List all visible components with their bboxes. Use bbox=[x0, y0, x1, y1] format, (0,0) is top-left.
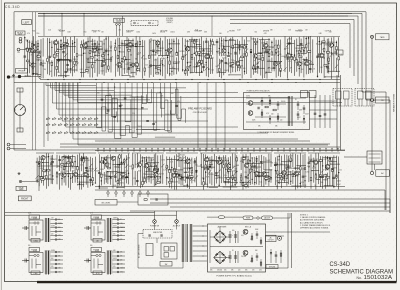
capacitor C49 bbox=[258, 107, 259, 110]
resistor R25 bbox=[98, 50, 100, 53]
wire bbox=[328, 38, 330, 73]
connector box speakers A bbox=[333, 89, 352, 107]
switch contact bbox=[64, 123, 68, 125]
wire bbox=[48, 154, 50, 187]
connector pin tick bbox=[272, 148, 273, 152]
resistor R4 bbox=[35, 47, 37, 50]
capacitor C27 bbox=[257, 67, 260, 68]
capacitor C19 bbox=[220, 61, 223, 62]
resistor R186 bbox=[282, 173, 285, 175]
resistor R195 bbox=[327, 177, 330, 179]
wire bbox=[273, 213, 291, 218]
wire bbox=[160, 83, 171, 132]
resistor R9 bbox=[47, 58, 49, 61]
wire bbox=[199, 48, 211, 50]
wire bbox=[283, 154, 285, 182]
wire vertical pair bbox=[291, 213, 293, 268]
wire bbox=[173, 39, 175, 75]
wire bbox=[80, 41, 82, 78]
wire bbox=[79, 181, 92, 183]
resistor R132 bbox=[132, 165, 134, 168]
wire bbox=[297, 44, 303, 46]
capacitor C66 bbox=[186, 177, 189, 178]
wire bbox=[142, 83, 146, 104]
switch contact bbox=[76, 117, 80, 119]
wire bbox=[227, 157, 229, 169]
resistor R199 bbox=[260, 240, 262, 243]
wire bbox=[96, 41, 98, 57]
wire bbox=[68, 69, 78, 71]
resistor R31 bbox=[101, 55, 104, 57]
wire bbox=[237, 251, 239, 263]
fuse bbox=[96, 254, 101, 256]
wire bbox=[83, 40, 85, 78]
switch contact bbox=[64, 117, 68, 119]
wire bbox=[98, 36, 100, 74]
wire bbox=[92, 158, 94, 186]
wire bbox=[328, 44, 334, 46]
transistor Q6 bbox=[102, 62, 106, 66]
wire bbox=[223, 39, 225, 56]
transistor Q10 bbox=[156, 41, 160, 45]
transistor Q5 bbox=[92, 48, 96, 52]
wire bbox=[166, 49, 170, 51]
wire bbox=[239, 41, 241, 55]
label USA bbox=[31, 239, 40, 243]
wire bbox=[193, 255, 207, 257]
wire bbox=[191, 158, 193, 184]
bus wire bbox=[170, 206, 390, 208]
wire bbox=[77, 155, 79, 184]
resistor R158 bbox=[223, 165, 225, 168]
resistor R184 bbox=[297, 171, 300, 173]
wire bbox=[207, 216, 214, 218]
node AC bbox=[257, 217, 259, 219]
resistor R197 bbox=[251, 236, 253, 239]
wire bbox=[64, 165, 78, 167]
diode D13 bbox=[195, 170, 197, 172]
wire bbox=[86, 45, 102, 47]
transistor Q7 bbox=[117, 62, 121, 66]
diode D9 bbox=[50, 163, 52, 165]
connector pin tick bbox=[146, 148, 147, 152]
resistor R110 bbox=[47, 169, 50, 171]
resistor R84 bbox=[291, 56, 293, 59]
capacitor C79 bbox=[313, 161, 316, 162]
regulator sub-board box bbox=[244, 93, 310, 130]
wire bbox=[269, 97, 271, 106]
wire bbox=[29, 255, 34, 257]
wire bbox=[251, 255, 253, 263]
connector pin tick bbox=[170, 148, 171, 152]
wire bbox=[91, 39, 93, 78]
wire bbox=[47, 83, 49, 141]
capacitor C64 bbox=[145, 164, 148, 165]
wire bbox=[50, 227, 63, 229]
bus wire right pair bbox=[340, 75, 342, 150]
wire bbox=[331, 52, 338, 54]
resistor R148 bbox=[180, 175, 182, 178]
resistor R104 bbox=[273, 109, 276, 111]
diode D17 bbox=[304, 168, 306, 170]
filter capacitor C502 bbox=[234, 231, 237, 243]
wire bbox=[236, 155, 238, 184]
connector pin bbox=[55, 223, 57, 225]
bridge rectifier bbox=[214, 231, 226, 243]
wire bbox=[281, 156, 283, 188]
wire bbox=[148, 157, 150, 183]
wire bbox=[102, 83, 116, 131]
wire bbox=[50, 271, 63, 273]
wire bbox=[176, 223, 178, 229]
resistor R85 bbox=[294, 57, 296, 60]
wire bbox=[61, 157, 63, 186]
wire bbox=[232, 37, 234, 72]
capacitor C43 bbox=[152, 124, 155, 125]
transistor Q47 bbox=[314, 160, 318, 164]
wire bbox=[10, 144, 26, 146]
wire bbox=[371, 102, 373, 172]
resistor R54 bbox=[191, 55, 193, 58]
capacitor C50 bbox=[314, 113, 317, 114]
wire bbox=[329, 157, 331, 186]
wire bbox=[221, 37, 223, 56]
wire bbox=[211, 16, 213, 36]
wire bbox=[94, 60, 106, 62]
wire bbox=[266, 48, 270, 50]
resistor R35 bbox=[124, 57, 126, 60]
wire bbox=[275, 40, 277, 78]
transistor Q8 bbox=[128, 42, 132, 46]
wire bbox=[253, 67, 265, 69]
wire bbox=[51, 83, 187, 88]
wire bbox=[150, 158, 152, 184]
wire bbox=[70, 83, 268, 134]
capacitor C11 bbox=[101, 65, 104, 66]
wire bbox=[307, 12, 366, 100]
wire bbox=[280, 250, 282, 263]
wire bbox=[330, 38, 332, 80]
wire bbox=[36, 152, 54, 154]
wire bbox=[97, 226, 99, 236]
power supply board outline bbox=[208, 224, 266, 272]
wire bbox=[308, 36, 310, 74]
wire bbox=[43, 13, 45, 36]
wire bbox=[313, 158, 315, 183]
wire bbox=[122, 16, 124, 36]
capacitor C60 bbox=[114, 176, 117, 177]
resistor R163 bbox=[236, 158, 238, 161]
wire bbox=[112, 239, 125, 241]
switch contact bbox=[46, 131, 50, 133]
resistor R185 bbox=[279, 174, 282, 176]
transistor Q35 bbox=[144, 164, 148, 168]
capacitor C88 bbox=[275, 255, 278, 256]
wire bbox=[239, 60, 244, 62]
wire bbox=[101, 41, 103, 75]
wire bbox=[267, 60, 282, 62]
resistor R170 bbox=[249, 169, 251, 172]
wire bbox=[112, 255, 125, 257]
diode D15 bbox=[270, 177, 272, 179]
resistor R100 bbox=[261, 112, 263, 115]
wire bbox=[297, 165, 307, 167]
switch contact bbox=[58, 117, 62, 119]
wire bbox=[103, 157, 105, 169]
wire bbox=[50, 263, 63, 265]
resistor R92 bbox=[319, 54, 321, 57]
capacitor C4 bbox=[48, 56, 51, 57]
wire bbox=[224, 83, 226, 151]
wire bbox=[335, 156, 337, 186]
wire bbox=[248, 162, 263, 164]
wire bbox=[229, 74, 241, 76]
wire bbox=[225, 155, 227, 186]
wire bbox=[64, 83, 132, 96]
wire bbox=[226, 236, 230, 238]
wire bbox=[87, 37, 89, 73]
wire bbox=[317, 37, 319, 78]
resistor R116 bbox=[77, 167, 79, 170]
wire bbox=[72, 40, 74, 76]
wire bbox=[201, 37, 203, 73]
wire bbox=[326, 39, 328, 73]
resistor R1 bbox=[27, 48, 29, 51]
wire bbox=[167, 159, 179, 161]
wire bbox=[275, 157, 277, 185]
wire bbox=[253, 38, 255, 75]
capacitor C6 bbox=[62, 52, 65, 53]
wire bbox=[285, 56, 294, 58]
diode D6 bbox=[261, 100, 263, 102]
wire bbox=[258, 155, 260, 185]
connector pin bbox=[117, 259, 119, 261]
wire bbox=[116, 25, 118, 36]
wire bbox=[122, 43, 133, 45]
resistor R119 bbox=[92, 178, 94, 181]
wire bbox=[210, 267, 263, 269]
wire bbox=[218, 156, 220, 187]
power switch box UK bbox=[91, 215, 102, 219]
connector pin tick bbox=[332, 148, 333, 152]
wire bbox=[165, 83, 171, 130]
bus wire bbox=[95, 189, 385, 191]
wire bbox=[221, 157, 223, 183]
label box mic level bbox=[95, 200, 117, 206]
wire bbox=[210, 246, 263, 248]
transistor Q13 bbox=[196, 62, 200, 66]
wire bbox=[278, 182, 288, 184]
power plug CEE bbox=[22, 259, 29, 263]
label JPN bbox=[93, 271, 102, 275]
wire bbox=[124, 39, 134, 41]
wire bbox=[389, 199, 391, 213]
resistor R64 bbox=[187, 66, 190, 68]
resistor R90 bbox=[308, 51, 311, 53]
wire bbox=[119, 38, 121, 76]
capacitor C54 bbox=[58, 159, 61, 160]
connector pin tick bbox=[254, 148, 255, 152]
wire bbox=[276, 156, 278, 189]
capacitor C16 bbox=[202, 67, 205, 68]
connector box speakers B bbox=[355, 89, 374, 107]
wire bbox=[335, 41, 337, 55]
resistor R156 bbox=[209, 164, 211, 167]
resistor R150 bbox=[191, 168, 193, 171]
wire bbox=[10, 148, 26, 150]
resistor R188 bbox=[315, 175, 317, 178]
wire bbox=[36, 73, 42, 75]
label box phono bbox=[16, 69, 28, 74]
wire bbox=[273, 38, 275, 72]
wire bbox=[60, 143, 330, 145]
resistor R129 bbox=[108, 167, 111, 169]
wire bbox=[63, 156, 75, 158]
wire bbox=[331, 161, 337, 163]
capacitor C21 bbox=[225, 62, 228, 63]
wire bbox=[55, 83, 114, 91]
wire bbox=[159, 55, 169, 57]
wire bbox=[287, 42, 295, 44]
wire bbox=[277, 101, 279, 110]
wire bbox=[78, 184, 85, 186]
small box TP bbox=[336, 50, 343, 55]
wire bbox=[154, 169, 159, 171]
wire bbox=[269, 46, 273, 48]
switch contact bbox=[82, 117, 86, 119]
capacitor C75 bbox=[287, 166, 290, 167]
wire bbox=[79, 154, 81, 190]
node jack bbox=[7, 76, 10, 79]
resistor R14 bbox=[74, 61, 76, 64]
wire bbox=[260, 40, 262, 76]
wire bbox=[329, 95, 331, 128]
wire bbox=[128, 39, 130, 75]
connector pin tick bbox=[260, 148, 261, 152]
capacitor C23 bbox=[230, 66, 233, 67]
wire bbox=[209, 157, 211, 184]
wire bbox=[76, 39, 78, 54]
capacitor C29 bbox=[273, 67, 276, 68]
wire bbox=[130, 76, 135, 78]
transformer T JPN bbox=[107, 251, 113, 275]
switch contact bbox=[46, 123, 50, 125]
resistor R126 bbox=[117, 180, 119, 183]
wire bbox=[287, 156, 289, 185]
wire bbox=[256, 231, 258, 239]
capacitor C81 bbox=[326, 169, 329, 170]
transistor Q29 bbox=[73, 173, 77, 177]
transformer T UK bbox=[107, 218, 113, 242]
capacitor C14 bbox=[130, 65, 133, 66]
resistor R55 bbox=[194, 40, 196, 43]
transistor Q48 bbox=[326, 165, 330, 169]
resistor R143 bbox=[169, 169, 171, 172]
resistor R95 bbox=[336, 47, 338, 50]
resistor R161 bbox=[232, 176, 234, 179]
wire bbox=[182, 156, 184, 186]
wire bbox=[83, 13, 85, 36]
connector pin tick bbox=[200, 148, 201, 152]
wire bbox=[74, 156, 76, 182]
resistor R180 bbox=[286, 175, 288, 178]
potentiometer VR2 bbox=[17, 128, 23, 132]
resistor R36 bbox=[126, 44, 128, 47]
resistor R183 bbox=[300, 167, 302, 170]
wire bbox=[63, 155, 65, 183]
wire bbox=[362, 92, 386, 210]
wire bbox=[226, 257, 230, 259]
transistor Q14 bbox=[205, 54, 209, 58]
wire bbox=[122, 75, 131, 77]
wire bbox=[132, 39, 134, 77]
bus wire right pair bbox=[336, 75, 338, 150]
wire bbox=[59, 75, 70, 77]
wire bbox=[219, 226, 221, 231]
wire bbox=[85, 156, 87, 185]
wire bbox=[304, 64, 314, 66]
transformer T CEE bbox=[45, 251, 51, 275]
capacitor C1 bbox=[24, 56, 27, 57]
wire bbox=[52, 83, 118, 104]
wire bbox=[61, 156, 71, 158]
wire bbox=[25, 48, 32, 50]
transistor Q37 bbox=[172, 173, 176, 177]
wire bbox=[117, 187, 125, 189]
wire bbox=[286, 155, 288, 186]
wire bbox=[176, 38, 178, 55]
wire bbox=[195, 157, 197, 187]
wire bbox=[56, 155, 58, 168]
capacitor C18 bbox=[216, 42, 219, 43]
transistor Q44 bbox=[262, 172, 266, 176]
resistor R152 bbox=[190, 176, 193, 178]
resistor R5 bbox=[37, 44, 39, 47]
wire bbox=[264, 161, 272, 163]
capacitor C32 bbox=[300, 44, 303, 45]
connector pin tick bbox=[278, 148, 279, 152]
resistor R15 bbox=[76, 54, 78, 57]
transistor Q49 bbox=[243, 229, 248, 234]
node jack bbox=[7, 147, 10, 150]
wire bbox=[119, 154, 121, 186]
voltage selector box bbox=[161, 243, 177, 259]
wire bbox=[58, 59, 70, 61]
wire bbox=[193, 240, 207, 242]
node jack bbox=[19, 40, 22, 43]
resistor R190 bbox=[329, 158, 331, 161]
wire bbox=[176, 211, 178, 220]
wire bbox=[87, 157, 89, 188]
wire bbox=[371, 38, 373, 98]
wire bbox=[186, 157, 188, 171]
wire bbox=[47, 38, 49, 74]
resistor R196 bbox=[144, 199, 147, 201]
wire bbox=[126, 59, 130, 61]
connector pin tick bbox=[188, 148, 189, 152]
resistor R178 bbox=[276, 171, 278, 174]
wire bbox=[235, 40, 237, 73]
wire bbox=[224, 39, 235, 41]
wire bbox=[256, 156, 258, 184]
wire bbox=[149, 64, 157, 66]
wire bbox=[252, 166, 261, 168]
wire bbox=[73, 83, 150, 100]
resistor R194 bbox=[319, 160, 322, 162]
wire bbox=[148, 162, 160, 164]
wire band top edge bbox=[38, 36, 340, 38]
transistor Q4 bbox=[83, 43, 87, 47]
